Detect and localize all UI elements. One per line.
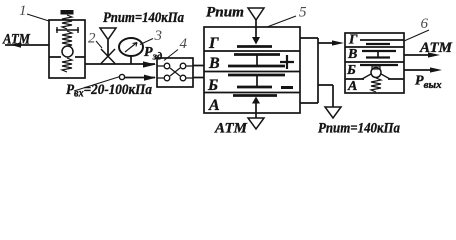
svg-text:АТМ: АТМ bbox=[214, 121, 248, 137]
svg-text:Рвх=20-100кПа: Рвх=20-100кПа bbox=[66, 82, 152, 100]
svg-text:Г: Г bbox=[348, 33, 358, 48]
svg-text:А: А bbox=[347, 79, 357, 94]
svg-text:А: А bbox=[208, 97, 220, 114]
svg-text:В: В bbox=[208, 55, 220, 72]
svg-text:В: В bbox=[347, 47, 357, 62]
svg-text:4: 4 bbox=[180, 36, 188, 52]
svg-text:Рпит=140кПа: Рпит=140кПа bbox=[318, 121, 400, 137]
svg-text:Рвых: Рвых bbox=[415, 74, 442, 92]
svg-text:6: 6 bbox=[421, 16, 429, 32]
svg-text:5: 5 bbox=[299, 5, 307, 21]
svg-text:АТМ: АТМ bbox=[2, 32, 30, 48]
svg-text:Б: Б bbox=[346, 63, 356, 78]
svg-text:Б: Б bbox=[207, 77, 218, 94]
svg-text:Рпит: Рпит bbox=[206, 5, 244, 21]
svg-text:3: 3 bbox=[154, 28, 163, 44]
svg-text:Рпит=140кПа: Рпит=140кПа bbox=[103, 10, 184, 26]
svg-text:Г: Г bbox=[208, 35, 219, 52]
svg-text:2: 2 bbox=[88, 31, 96, 47]
svg-text:АТМ: АТМ bbox=[419, 40, 453, 56]
svg-text:1: 1 bbox=[19, 3, 27, 19]
svg-text:Рзд: Рзд bbox=[144, 45, 163, 63]
